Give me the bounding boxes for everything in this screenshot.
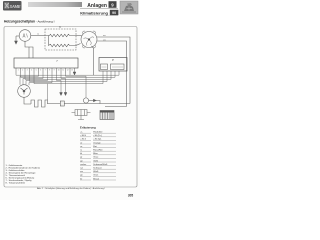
wire pin3 to relay box — [25, 71, 111, 79]
svg-text:Grau: Grau — [93, 156, 99, 159]
wire ground G1 to gauge B1 — [16, 35, 19, 37]
legend entries (wire codes) — [80, 131, 108, 181]
wire pin1 to relay box — [16, 71, 119, 75]
fuse block detail icon — [100, 111, 114, 120]
svg-text:Gelb: Gelb — [93, 160, 98, 162]
resistor R1 (upper heating element) — [45, 34, 76, 37]
header rule under Anlagen — [80, 8, 118, 10]
svg-text:6: 6 — [59, 25, 61, 29]
wire sw: motor M1 right, down right side inner — [97, 41, 127, 107]
wire ws: motor M1 right, down right side — [97, 37, 130, 104]
legend row underlines — [80, 133, 116, 180]
svg-text:3: 3 — [27, 69, 28, 71]
wire switch S1 to resistor network — [24, 97, 31, 104]
relay box P — [99, 58, 127, 72]
svg-text:9: 9 — [54, 69, 55, 71]
ground G4 — [64, 93, 67, 96]
svg-text:1: 1 — [18, 69, 19, 71]
svg-text:11: 11 — [62, 69, 64, 71]
switch S1 (blower switch) — [18, 85, 31, 98]
wire pin6 to switch S1 — [20, 74, 39, 85]
wire bus to resistor network — [47, 84, 49, 100]
svg-text:Heizungsschaltplan - Ausführun: Heizungsschaltplan - Ausführung I — [4, 20, 55, 24]
svg-text:8 - Temperaturfühler: 8 - Temperaturfühler — [6, 181, 26, 184]
svg-text:Anlagen: Anlagen — [87, 3, 107, 9]
wire gauge B1 down to control unit pin row — [25, 41, 33, 58]
svg-text:5: 5 — [36, 69, 37, 71]
header gradient bar — [28, 2, 82, 7]
section number box 9 — [109, 1, 117, 8]
wire stub into control unit top — [28, 47, 30, 58]
motor M1 (blower fan) — [81, 31, 97, 48]
svg-text:SAME: SAME — [9, 4, 20, 9]
wire pin5 to relay box — [34, 71, 103, 84]
svg-text:13: 13 — [71, 69, 73, 71]
wire pin13 stub — [69, 74, 71, 76]
ground G2 (under pin 14) — [73, 72, 76, 75]
svg-text:12: 12 — [67, 69, 69, 71]
svg-text:305: 305 — [128, 193, 134, 197]
svg-text:10: 10 — [58, 69, 60, 71]
heater enclosure 6 (dashed) — [45, 29, 76, 50]
svg-text:Braun: Braun — [93, 177, 100, 180]
wire R1 to motor M1 — [76, 35, 82, 37]
svg-text:+30 d: +30 d — [80, 139, 86, 141]
svg-text:Erläuterung: Erläuterung — [80, 126, 96, 130]
svg-text:7: 7 — [45, 69, 46, 71]
wire pin12 to sensor B2 — [66, 74, 87, 98]
pin numbers 1-13 — [18, 69, 73, 71]
wire sensor B2 to right riser — [96, 101, 130, 104]
SAME logo — [3, 1, 22, 11]
section number box 90 — [110, 10, 119, 15]
svg-text:Weiß: Weiß — [93, 171, 99, 173]
component key list — [6, 164, 41, 184]
resistor network R3 (stepped) — [31, 100, 48, 107]
wire pin4 to relay box — [30, 71, 108, 82]
gauge B1 (thermostat dial) — [19, 30, 31, 42]
svg-text:2: 2 — [22, 69, 23, 71]
svg-text:Heizlüfter: Heizlüfter — [93, 131, 103, 134]
ground G1 (left of gauge) — [15, 36, 18, 44]
svg-text:Abb. 1 - Schaltplan (Heizung u: Abb. 1 - Schaltplan (Heizung und Belüftu… — [37, 187, 105, 190]
wire pin2 to relay box — [21, 71, 116, 77]
svg-text:90: 90 — [112, 11, 116, 15]
sensor B2 (temperature probe) — [83, 98, 96, 103]
wire pin7 to switch S1 — [23, 74, 43, 85]
wire pin8 to switch S1 — [26, 74, 48, 85]
wire R2 to motor M1 — [76, 44, 81, 46]
svg-text:Orange: Orange — [93, 141, 101, 144]
control unit pins 1-14 — [16, 68, 75, 74]
ground G3 — [60, 93, 63, 96]
svg-text:Klimatisierung: Klimatisierung — [80, 10, 108, 15]
svg-text:P: P — [112, 58, 114, 62]
svg-text:ws: ws — [103, 35, 107, 37]
svg-text:or: or — [80, 141, 82, 144]
wire pin9 to switch S1 — [29, 74, 52, 86]
svg-text:Rosa/Rot: Rosa/Rot — [93, 149, 103, 152]
svg-text:Grün: Grün — [93, 174, 99, 177]
svg-text:7: 7 — [56, 59, 58, 63]
svg-text:8: 8 — [49, 69, 50, 71]
connector detail icon — [72, 110, 91, 120]
svg-text:sw: sw — [103, 39, 106, 41]
svg-text:Blau: Blau — [93, 153, 98, 155]
svg-text:4: 4 — [31, 69, 32, 71]
wire inner riser bottom section — [105, 106, 127, 108]
svg-text:+30 E: +30 E — [80, 135, 86, 137]
svg-text:6: 6 — [40, 69, 41, 71]
svg-text:Rot: Rot — [93, 145, 97, 148]
svg-text:br: br — [80, 177, 82, 180]
svg-text:gr: gr — [80, 156, 82, 159]
svg-text:sw: sw — [80, 168, 83, 170]
wire bottom bus left section — [48, 103, 101, 105]
control unit 7 — [14, 58, 78, 68]
wire gauge B1 to heater box — [31, 35, 45, 37]
svg-text:ro: ro — [37, 33, 40, 36]
wire pin11 to ground G4 — [61, 74, 66, 93]
inline connector X1 on bottom bus — [60, 101, 64, 106]
svg-text:sw/ws: sw/ws — [80, 164, 87, 166]
svg-text:Schwarz: Schwarz — [93, 167, 101, 170]
svg-text:+30 dyn.: +30 dyn. — [93, 139, 102, 141]
diagram frame — [4, 27, 137, 188]
svg-text:Schwarz/Weiß: Schwarz/Weiß — [93, 163, 108, 166]
resistor R2 (lower heating element) — [49, 36, 77, 47]
svg-text:+30 (D+): +30 (D+) — [93, 135, 102, 137]
header thumbnail picture — [120, 1, 138, 14]
wire motor M1 bottom to bus — [92, 46, 94, 75]
header rule under Klimatisierung — [80, 15, 118, 17]
wire pin10 to ground G3 — [57, 74, 62, 93]
